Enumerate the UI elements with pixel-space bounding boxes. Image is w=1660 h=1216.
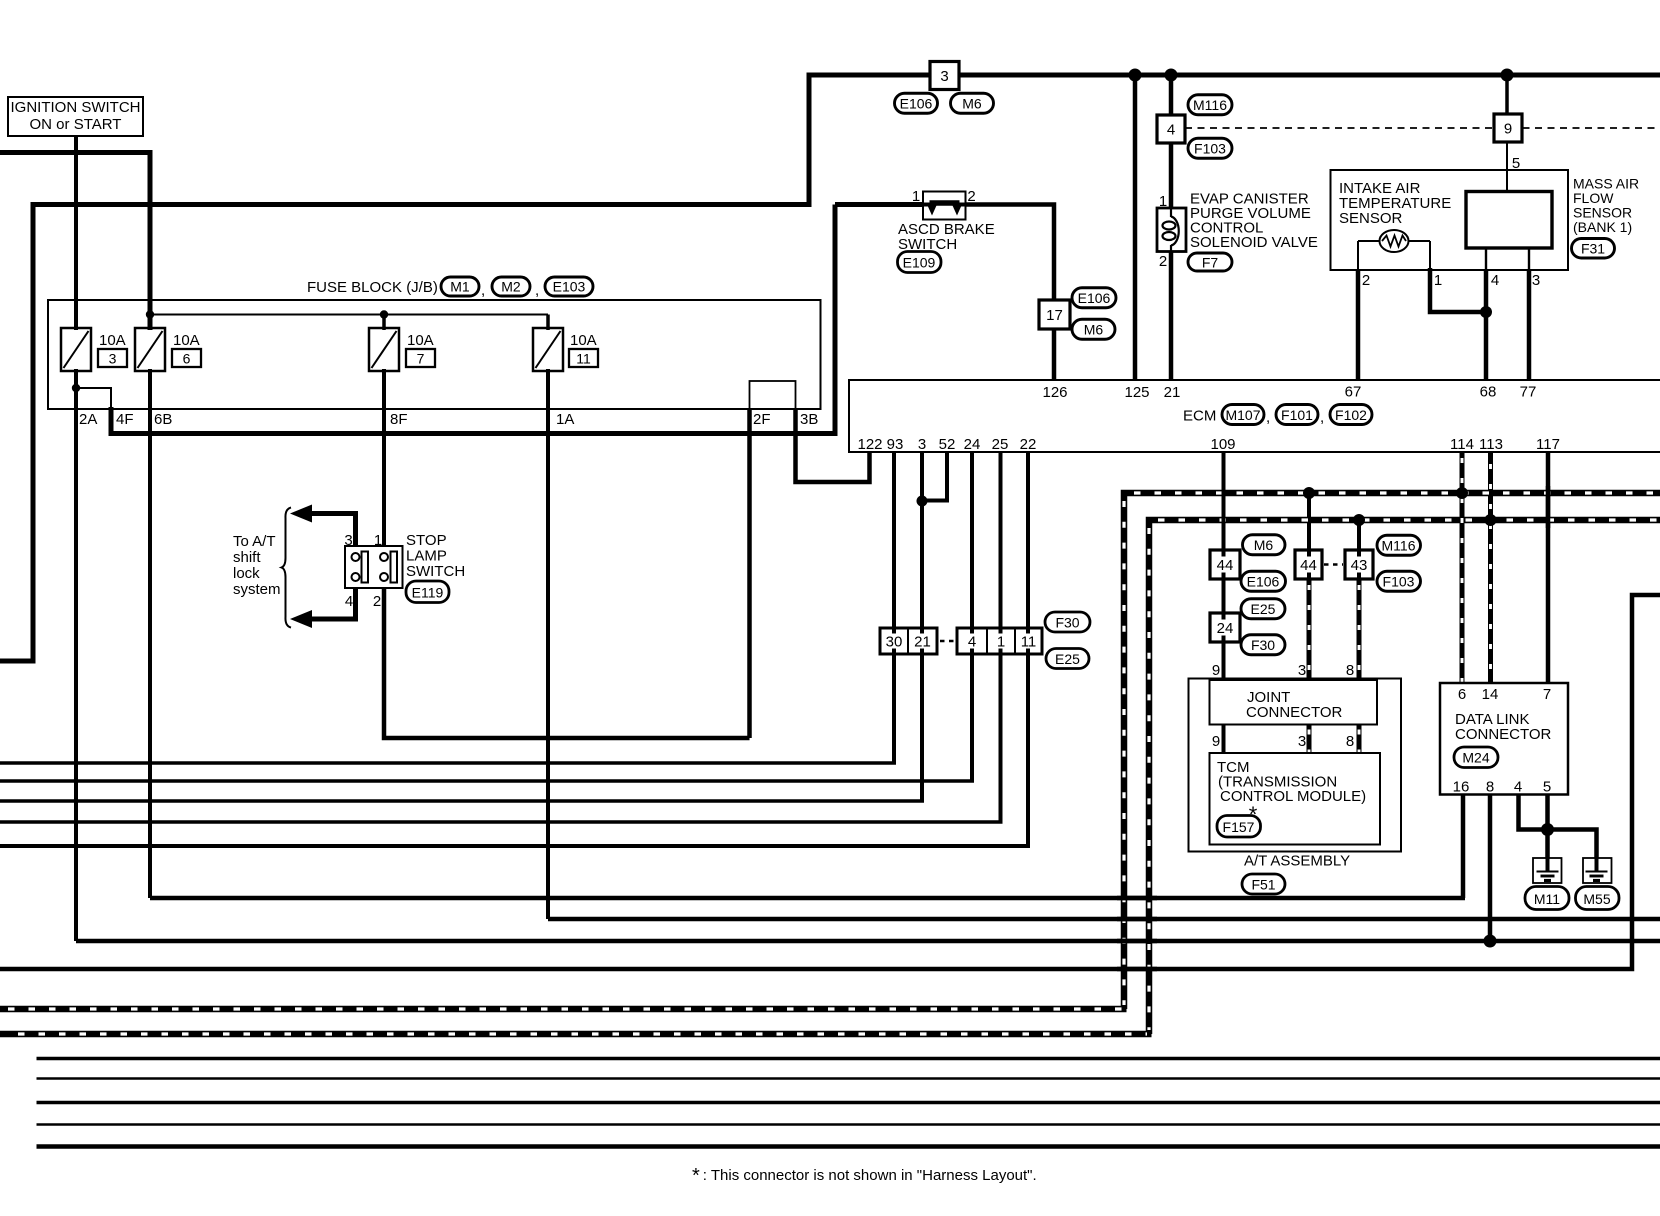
node top bus x1171 (1165, 69, 1178, 82)
stop lamp switch E119 (345, 546, 403, 588)
svg-text:2F: 2F (753, 411, 771, 428)
connector F7 (1188, 253, 1232, 271)
connector M107 (1222, 405, 1264, 425)
wire joint connector 8 branch (1357, 520, 1361, 552)
wire DLC 16 down (1461, 795, 1466, 899)
svg-text:1: 1 (912, 188, 920, 205)
svg-text:E25: E25 (1055, 651, 1080, 667)
svg-text:2: 2 (1159, 253, 1167, 270)
fuse block 2F-3B bus bar box (750, 381, 796, 409)
svg-text:CONNECTOR: CONNECTOR (1246, 704, 1343, 721)
label mass air flow sensor (1573, 176, 1639, 236)
svg-text:3: 3 (344, 532, 352, 549)
svg-text:1: 1 (374, 532, 382, 549)
svg-text:21: 21 (914, 634, 931, 651)
node top bus x1135 (1129, 69, 1142, 82)
wire ECM 117 to DLC 7 (1546, 452, 1551, 685)
ground M11 (1533, 858, 1562, 883)
connector M2 (492, 277, 530, 296)
wire ignition switch to fuse 1 (74, 136, 78, 330)
svg-text:52: 52 (939, 436, 956, 453)
wire ECM 52 jog to pin3 wire (922, 452, 947, 501)
wire riser x809 to top bus (807, 75, 812, 207)
svg-text:44: 44 (1300, 557, 1317, 574)
svg-text:E106: E106 (1247, 574, 1280, 590)
node pins 3-52 junction (917, 496, 928, 507)
connector F102 (1330, 405, 1372, 425)
svg-text:6: 6 (183, 351, 191, 367)
wire MAF pin3 to ECM 77 (1528, 248, 1530, 270)
wire stop lamp pin4 to arrow (303, 586, 356, 619)
svg-text:E119: E119 (412, 585, 444, 601)
connector E106 (895, 93, 938, 113)
connector E106 (1241, 571, 1286, 591)
label stop lamp switch (406, 532, 465, 580)
connector E119 (406, 581, 449, 603)
splice box 9 (1494, 114, 1522, 142)
svg-text:shift: shift (233, 549, 261, 566)
trunk line y1058 (37, 1057, 1660, 1061)
svg-text:14: 14 (1482, 686, 1499, 703)
wire DLC 4 jog (1519, 795, 1548, 830)
wire fuse2 output 6B (148, 369, 152, 898)
svg-text:M55: M55 (1583, 891, 1610, 907)
svg-text:3: 3 (1532, 272, 1540, 289)
svg-text:11: 11 (576, 351, 591, 367)
svg-text:9: 9 (1212, 662, 1220, 679)
svg-text:F103: F103 (1383, 574, 1415, 590)
svg-text:M1: M1 (450, 279, 470, 295)
wire ECM 22 down (1026, 452, 1030, 846)
svg-text:ECM: ECM (1183, 408, 1216, 425)
white dashes of shield lines (8, 458, 1660, 1034)
connector F30 (1241, 635, 1285, 655)
svg-text:8: 8 (1346, 662, 1354, 679)
connector box 4 (1157, 115, 1185, 143)
wire fuse4 output 1A (546, 369, 550, 919)
node DLC 8 on bus y941 (1484, 935, 1497, 948)
svg-text:E106: E106 (1078, 290, 1111, 306)
wire patches over shield dashes (1117, 486, 1548, 969)
trunk line y1102 (37, 1101, 1660, 1105)
svg-text:,: , (1266, 409, 1270, 426)
svg-text:3B: 3B (800, 411, 818, 428)
svg-text:68: 68 (1480, 384, 1497, 401)
svg-text:3: 3 (940, 68, 948, 85)
wire x1135 to ECM 125 (1133, 75, 1138, 382)
connector M55 (1576, 887, 1620, 910)
svg-text:M107: M107 (1225, 407, 1260, 423)
label EVAP solenoid valve (1190, 191, 1318, 252)
wire MAF pin4 to ECM 68 (1485, 248, 1487, 270)
node feeder at 8F (380, 310, 388, 318)
svg-text:(BANK 1): (BANK 1) (1573, 219, 1632, 235)
svg-text:2: 2 (373, 593, 381, 610)
wire feeder stub to fuse 3 (382, 315, 386, 331)
wire ECM 25 down (999, 452, 1003, 822)
shield wire joint connector to TCM (1307, 725, 1312, 756)
svg-text:,: , (535, 282, 539, 299)
svg-text:FUSE BLOCK (J/B): FUSE BLOCK (J/B) (307, 279, 438, 296)
svg-text:CONTROL MODULE): CONTROL MODULE) (1220, 788, 1366, 805)
svg-text:16: 16 (1453, 779, 1470, 796)
svg-text:A/T ASSEMBLY: A/T ASSEMBLY (1244, 853, 1350, 870)
svg-text:lock: lock (233, 565, 260, 582)
svg-text:10A: 10A (407, 332, 434, 349)
connector 30-21 F30 (880, 628, 937, 654)
wire joint connector 9 to TCM (1222, 725, 1226, 756)
svg-text:4: 4 (1167, 122, 1175, 139)
wire ECM 109 to joint connector 9 (1222, 452, 1226, 682)
svg-text:,: , (481, 282, 485, 299)
svg-text:6: 6 (1458, 686, 1466, 703)
connector M1 (441, 277, 479, 296)
wire ASCD switch feed y204.5 (835, 202, 923, 207)
svg-text:SWITCH: SWITCH (406, 563, 465, 580)
dashed link 21 to 4 (940, 640, 956, 642)
svg-text:LAMP: LAMP (406, 548, 447, 565)
svg-text:SENSOR: SENSOR (1339, 210, 1403, 227)
svg-text:4F: 4F (116, 411, 134, 428)
connector E103 (545, 277, 593, 296)
svg-text:44: 44 (1217, 557, 1234, 574)
wire left feed y204.5 to riser (0, 205, 809, 662)
svg-text:109: 109 (1210, 436, 1235, 453)
A/T assembly outer box (1189, 679, 1402, 852)
node ground junction (1541, 823, 1554, 836)
svg-text:117: 117 (1536, 436, 1560, 453)
ECM box (849, 380, 1660, 452)
wire ECM 93 down (892, 452, 896, 763)
svg-text:25: 25 (992, 436, 1009, 453)
dashed link 44 to 43 (1324, 563, 1343, 565)
connector E109 (898, 252, 942, 273)
svg-text:system: system (233, 581, 281, 598)
svg-text:F101: F101 (1281, 407, 1313, 423)
node pin4 junction (1480, 306, 1492, 318)
bus to pin 3 (0, 799, 924, 802)
arrow to A/T shift lock (lower) (290, 610, 312, 628)
wire branch to ground M55 (1548, 830, 1597, 861)
shield wire ECM 114 to DLC 6 (1460, 452, 1465, 685)
connector M116 (1377, 535, 1421, 555)
brace to A/T shift lock system (282, 508, 292, 628)
connector F101 (1276, 405, 1318, 425)
svg-text:M116: M116 (1193, 97, 1227, 113)
connector F103 (1377, 571, 1421, 591)
svg-text:E106: E106 (900, 96, 933, 112)
trunk line y1124 (37, 1123, 1660, 1126)
wire ASCD riser x835 (833, 205, 838, 437)
shield wire 43 to joint connector 8 (1357, 579, 1362, 682)
svg-text:2A: 2A (79, 411, 97, 428)
svg-text:6B: 6B (154, 411, 172, 428)
wire jog to 4F terminal (76, 388, 111, 409)
svg-text:8: 8 (1346, 733, 1354, 750)
connector E25 (1046, 649, 1089, 669)
svg-text:3: 3 (1298, 662, 1306, 679)
connector M6 (951, 93, 994, 113)
TCM box (1210, 753, 1381, 845)
wire thermistor pin2 (1357, 241, 1359, 270)
node shield bus x1462 (1456, 487, 1468, 499)
wire stop lamp pin3 to arrow (303, 514, 356, 549)
svg-text:2: 2 (967, 188, 975, 205)
svg-text:F31: F31 (1581, 241, 1605, 257)
wire fuse1 output 2A (74, 369, 78, 941)
shield wire 44M to joint connector 3 (1307, 579, 1312, 682)
bus to pin 25 (0, 820, 1003, 823)
svg-text:7: 7 (1543, 686, 1551, 703)
wire x1171 to EVAP solenoid (1169, 75, 1174, 210)
connector F103 (1188, 138, 1232, 158)
svg-text:67: 67 (1345, 384, 1362, 401)
connector F30 (1045, 612, 1090, 632)
svg-text:F30: F30 (1055, 615, 1079, 631)
label intake air temperature sensor (1339, 180, 1451, 227)
data link connector box (1440, 683, 1568, 795)
svg-text:17: 17 (1046, 307, 1063, 324)
connector M24 (1454, 747, 1498, 768)
wire splice 9 to MAF pin 5 (1506, 142, 1508, 192)
ground M55 (1583, 858, 1612, 883)
MAF inner sensor block (1466, 192, 1552, 249)
svg-text:E109: E109 (903, 255, 936, 271)
node shield bus x1359 (1353, 514, 1365, 526)
wire 3B to ECM 122 (796, 409, 870, 482)
node feeder at 6B (146, 310, 154, 318)
svg-text:F30: F30 (1251, 637, 1275, 653)
connector box 43 (F103) (1345, 550, 1373, 579)
connector M116 (1188, 95, 1232, 115)
wire ECM 3 down (920, 452, 924, 801)
connector E106 (1072, 288, 1116, 308)
connector box 44 (M6/E106) (1210, 550, 1240, 579)
svg-text:STOP: STOP (406, 532, 447, 549)
svg-text:5: 5 (1543, 779, 1551, 796)
connector E25 (1241, 599, 1285, 619)
svg-text:ON or START: ON or START (30, 116, 122, 133)
shield wire ECM 113 to DLC 14 (1488, 452, 1493, 685)
connector M6 (1243, 535, 1286, 555)
svg-text:,: , (1320, 409, 1324, 426)
svg-text:9: 9 (1504, 121, 1512, 138)
svg-text:24: 24 (1217, 620, 1234, 637)
wire x1507 to splice 9 (1505, 75, 1509, 116)
wire 4F drop (111, 407, 835, 434)
wire feeder stub to fuse 4 (546, 315, 550, 331)
svg-text:93: 93 (887, 436, 904, 453)
svg-text:113: 113 (1479, 436, 1503, 453)
svg-text:2: 2 (1362, 272, 1370, 289)
svg-text:M6: M6 (962, 96, 982, 112)
wire top bus y75 (807, 73, 1660, 78)
svg-text:1: 1 (997, 634, 1005, 651)
svg-text:E25: E25 (1251, 601, 1276, 617)
svg-text:8F: 8F (390, 411, 408, 428)
svg-text:114: 114 (1450, 436, 1474, 453)
svg-text:22: 22 (1020, 436, 1037, 453)
trunk line y1146 (37, 1144, 1660, 1149)
connector F51 (1242, 874, 1285, 894)
node shield bus x1309 (1303, 487, 1315, 499)
svg-text:4: 4 (1491, 272, 1499, 289)
bus to pin 22 (0, 844, 1030, 848)
connector F157 (1217, 816, 1261, 838)
svg-text:10A: 10A (570, 332, 597, 349)
fuse 10A 11 (533, 328, 563, 371)
mass air flow sensor enclosure (1331, 170, 1569, 270)
connector M6 (1072, 319, 1115, 339)
bus to pin 24 (0, 779, 974, 782)
svg-text:1: 1 (1434, 272, 1442, 289)
svg-text:F7: F7 (1202, 255, 1219, 271)
arrow to A/T shift lock (upper) (290, 505, 312, 523)
wire left feed y152 to fuse 2 (0, 153, 150, 331)
connector 4-1-11 E25 (957, 628, 1042, 654)
svg-text:122: 122 (857, 436, 882, 453)
bus y969 from right edge (0, 595, 1660, 969)
dashed link from connector 4 (1185, 127, 1660, 129)
svg-text:M11: M11 (1534, 891, 1560, 907)
splice box 17 (1039, 300, 1070, 329)
label To A/T shift lock system (233, 533, 281, 598)
svg-text:4: 4 (345, 593, 353, 610)
shield bus upper y493 (1124, 493, 1660, 1009)
wire fuse feeder y314.5 (150, 314, 548, 316)
svg-text:7: 7 (417, 351, 425, 367)
trunk line y1078 (37, 1077, 1660, 1080)
connector box 44 (M116) (1295, 550, 1322, 579)
ASCD brake switch E109 (923, 192, 966, 220)
svg-text:11: 11 (1021, 634, 1037, 651)
svg-text:21: 21 (1164, 384, 1181, 401)
svg-text:10A: 10A (99, 332, 126, 349)
svg-text:M6: M6 (1254, 537, 1274, 553)
bus 1A y919 (548, 917, 1660, 922)
node top bus x1507 (1501, 69, 1514, 82)
svg-text:43: 43 (1351, 557, 1368, 574)
svg-text:E103: E103 (553, 279, 586, 295)
wire thermistor pin1 joins MAF pin4 (1429, 241, 1431, 270)
wire 2F drop (747, 409, 752, 738)
svg-text:1A: 1A (556, 411, 574, 428)
svg-text:CONNECTOR: CONNECTOR (1455, 726, 1552, 743)
svg-text:F103: F103 (1194, 141, 1226, 157)
wire joint connector 3 branch (1307, 493, 1311, 552)
svg-text:10A: 10A (173, 332, 200, 349)
wire stop lamp pin2 down and to 2F (384, 586, 750, 738)
wire ECM 24 down (970, 452, 974, 781)
svg-text:1: 1 (1159, 193, 1167, 210)
svg-text:3: 3 (1298, 733, 1306, 750)
splice box 3 on top bus (930, 62, 959, 90)
wire DLC 8 down (1488, 795, 1493, 942)
svg-text:4: 4 (1514, 779, 1522, 796)
node fuse1 output (72, 384, 80, 392)
svg-text:30: 30 (886, 634, 903, 651)
label ASCD brake switch (898, 221, 995, 253)
svg-text:IGNITION SWITCH: IGNITION SWITCH (11, 99, 141, 116)
svg-text:* : This connector is not show: * : This connector is not shown in "Harn… (692, 1165, 1037, 1187)
svg-text:125: 125 (1124, 384, 1149, 401)
svg-text:126: 126 (1042, 384, 1067, 401)
fuse block (J/B) outline (48, 300, 821, 409)
bus to pin 93 (0, 761, 896, 764)
svg-text:M24: M24 (1462, 750, 1489, 766)
svg-text:SOLENOID VALVE: SOLENOID VALVE (1190, 234, 1318, 251)
svg-text:4: 4 (968, 634, 976, 651)
svg-text:F51: F51 (1251, 877, 1275, 893)
EVAP canister purge volume control solenoid valve F7 (1157, 208, 1186, 252)
svg-text:M6: M6 (1084, 322, 1104, 338)
shield bus bottom y1034 (0, 1031, 1152, 1038)
node shield bus x1490 (1485, 514, 1497, 526)
wire DLC 5 to ground M11 (1545, 795, 1550, 861)
shield bus bottom y1009 (0, 1006, 1127, 1013)
bus 2A y941 (76, 939, 1660, 944)
wire fuse3 output 8F to stop lamp (382, 369, 386, 548)
svg-text:9: 9 (1212, 733, 1220, 750)
svg-text:F157: F157 (1223, 819, 1255, 835)
fuse 10A 6 (135, 328, 165, 371)
wire ASCD pin2 to ECM 126 (966, 205, 1055, 383)
wire EVAP pin2 to ECM 21 (1169, 252, 1174, 383)
svg-text:To A/T: To A/T (233, 533, 276, 550)
svg-text:3: 3 (109, 351, 117, 367)
thermistor intake air temp sensor (1358, 230, 1430, 252)
svg-text:F102: F102 (1335, 407, 1367, 423)
connector F31 (1572, 239, 1615, 259)
svg-text:M2: M2 (501, 279, 521, 295)
ignition switch box (8, 97, 143, 136)
svg-text:3: 3 (918, 436, 926, 453)
fuse 10A 3 (61, 328, 91, 371)
connector M11 (1525, 887, 1569, 910)
svg-text:8: 8 (1486, 779, 1494, 796)
svg-text:77: 77 (1520, 384, 1537, 401)
svg-text:24: 24 (964, 436, 981, 453)
connector box 24 (E25/F30) (1210, 613, 1240, 642)
shield bus lower y520 (1149, 520, 1660, 1034)
joint connector box (1210, 680, 1378, 725)
bus 6B to DLC 16 y898 (150, 896, 1465, 901)
fuse 10A 7 (369, 328, 399, 371)
svg-text:M116: M116 (1382, 538, 1416, 554)
